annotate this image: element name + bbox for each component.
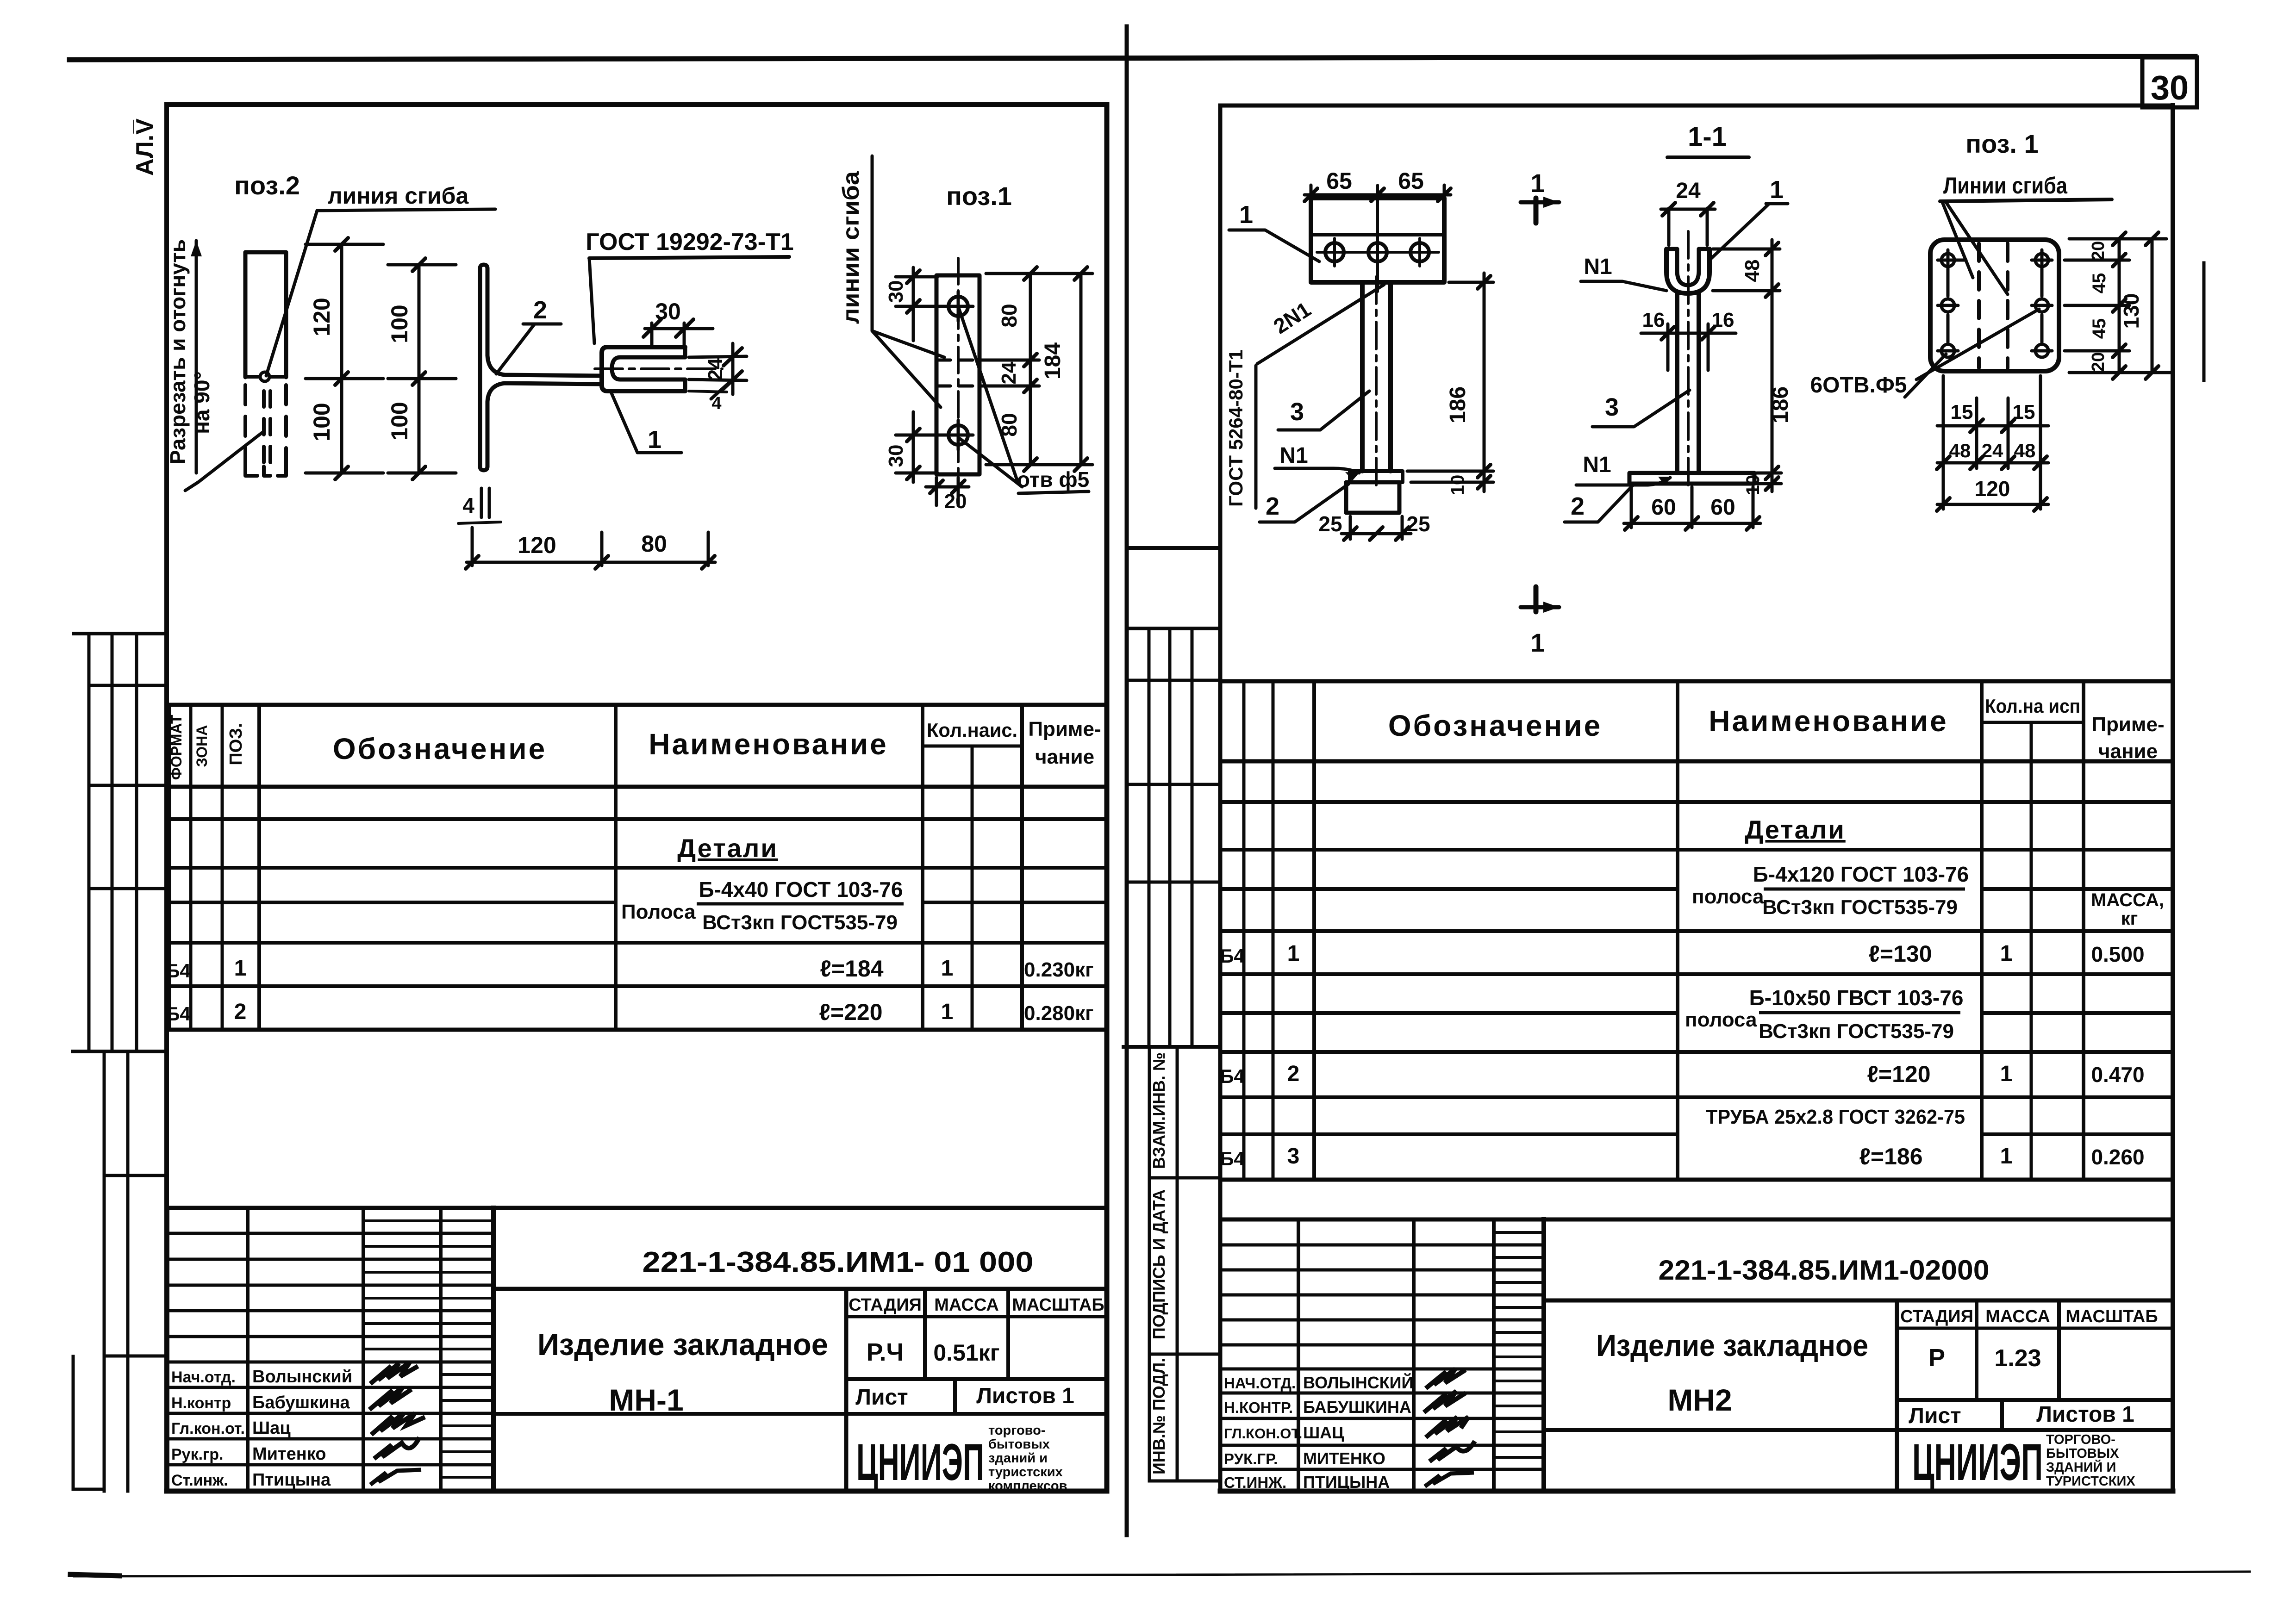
section mark lower (1534, 587, 1539, 612)
svg-text:РУК.ГР.: РУК.ГР. (1224, 1450, 1278, 1468)
svg-text:48: 48 (1741, 260, 1764, 282)
svg-text:80: 80 (641, 531, 667, 557)
svg-text:Изделие закладное: Изделие закладное (1596, 1328, 1868, 1362)
fold label leader (872, 156, 944, 357)
svg-text:поз.1: поз.1 (946, 181, 1012, 211)
T-part fork (detail 1) (602, 347, 685, 391)
svg-text:10: 10 (1447, 475, 1468, 496)
svg-text:Рук.гр.: Рук.гр. (171, 1446, 223, 1463)
RIGHT spec texts (1220, 695, 2164, 1169)
svg-text:МАССА,: МАССА, (2091, 890, 2164, 910)
svg-text:1: 1 (1239, 201, 1253, 229)
pipe section walls (1675, 293, 1679, 473)
svg-text:Б4: Б4 (1220, 1065, 1245, 1087)
svg-text:полоса: полоса (1685, 1008, 1757, 1031)
svg-text:ТОРГОВО-: ТОРГОВО- (2046, 1432, 2115, 1447)
svg-text:ℓ=120: ℓ=120 (1867, 1061, 1930, 1087)
svg-text:кг: кг (2121, 908, 2138, 929)
svg-text:Детали: Детали (677, 833, 778, 863)
svg-text:Полоса: Полоса (621, 901, 696, 923)
dim 130 (2151, 239, 2154, 373)
svg-text:чание: чание (1035, 746, 1094, 768)
svg-text:16: 16 (1712, 309, 1734, 331)
note arrow line (195, 241, 198, 473)
svg-text:15: 15 (1951, 401, 1973, 423)
svg-text:30: 30 (885, 280, 907, 303)
svg-text:1: 1 (234, 956, 247, 981)
svg-text:1-1: 1-1 (1688, 122, 1727, 152)
svg-text:бытовых: бытовых (988, 1437, 1050, 1452)
svg-text:N1: N1 (1584, 255, 1612, 279)
svg-text:Приме-: Приме- (1028, 718, 1101, 740)
svg-text:120: 120 (518, 532, 556, 558)
dim 60/60 (1630, 487, 1633, 528)
center page divider (1125, 26, 1129, 1535)
svg-text:Митенко: Митенко (252, 1444, 326, 1464)
dim 100/100 for T-part (418, 265, 421, 473)
right dims 80/24/80 chain (986, 272, 1092, 275)
svg-text:N1: N1 (1583, 453, 1611, 477)
svg-text:Р: Р (1928, 1344, 1945, 1372)
svg-text:Б4: Б4 (1220, 1148, 1245, 1169)
pos.1 plate left page (838, 156, 1092, 513)
svg-text:1: 1 (2000, 941, 2013, 966)
svg-text:25: 25 (1318, 512, 1342, 536)
svg-text:НАЧ.ОТД.: НАЧ.ОТД. (1224, 1374, 1296, 1392)
top plate (1311, 198, 1444, 282)
svg-text:30: 30 (655, 298, 681, 324)
svg-text:ВСт3кп ГОСТ535-79: ВСт3кп ГОСТ535-79 (1762, 896, 1958, 919)
rotated sidebar texts (1149, 1052, 1168, 1474)
hole bottom (948, 425, 968, 445)
svg-text:Разрезать и отогнуть: Разрезать и отогнуть (166, 239, 190, 464)
LEFT title texts (171, 1246, 1104, 1493)
bottom dim chain 120 / 80 (471, 528, 474, 566)
dim 30 above fork (650, 323, 654, 345)
fold dashed lines (936, 359, 980, 362)
svg-text:ℓ=184: ℓ=184 (820, 956, 883, 982)
svg-text:2: 2 (1266, 492, 1279, 520)
svg-text:3: 3 (1287, 1144, 1300, 1169)
svg-text:ЦНИИЭП: ЦНИИЭП (856, 1433, 984, 1491)
svg-text:3: 3 (1605, 393, 1619, 421)
svg-text:Б-10х50 ГВСТ 103-76: Б-10х50 ГВСТ 103-76 (1749, 986, 1964, 1010)
svg-text:МАССА: МАССА (1985, 1307, 2050, 1326)
svg-text:ТУРИСТСКИХ: ТУРИСТСКИХ (2046, 1474, 2135, 1489)
svg-text:Линии сгиба: Линии сгиба (1943, 173, 2068, 199)
svg-text:1: 1 (941, 956, 954, 981)
LEFT title block (168, 1208, 1107, 1491)
svg-text:Лист: Лист (855, 1385, 908, 1410)
svg-text:130: 130 (2119, 293, 2143, 329)
svg-text:2: 2 (533, 296, 547, 324)
svg-text:Обозначение: Обозначение (333, 732, 547, 765)
svg-text:186: 186 (1446, 386, 1470, 423)
leaders to fold lines (1942, 202, 1973, 278)
svg-text:221-1-384.85.ИМ1- 01 000: 221-1-384.85.ИМ1- 01 000 (643, 1246, 1034, 1278)
LEFT lower attachment sidebar (103, 1051, 106, 1491)
svg-text:Бабушкина: Бабушкина (252, 1393, 350, 1412)
stamp name rows (168, 1361, 493, 1364)
RIGHT lower attachment sidebar (1148, 1047, 1151, 1481)
svg-text:65: 65 (1326, 168, 1352, 194)
fraction bar left (697, 902, 904, 906)
svg-text:Приме-: Приме- (2091, 713, 2164, 736)
svg-text:на 90°: на 90° (190, 371, 214, 434)
svg-text:МАСШТАБ: МАСШТАБ (1012, 1295, 1104, 1315)
dims 16/16 (1666, 324, 1670, 370)
LEFT spec table grid (169, 703, 1107, 707)
svg-text:Детали: Детали (1745, 815, 1846, 844)
dim 24 right of fork (689, 356, 747, 357)
pos.1 plate body (936, 275, 980, 474)
svg-text:Кол.наис.: Кол.наис. (927, 719, 1017, 741)
svg-text:Обозначение: Обозначение (1388, 709, 1602, 742)
svg-text:0.260: 0.260 (2091, 1145, 2144, 1169)
svg-text:100: 100 (387, 402, 412, 440)
svg-text:1: 1 (2000, 1144, 2013, 1169)
svg-text:3: 3 (1290, 398, 1304, 426)
svg-text:48: 48 (1949, 440, 1971, 461)
plate holes (1325, 243, 1344, 261)
svg-text:1: 1 (1770, 176, 1784, 204)
svg-text:Птицына: Птицына (252, 1470, 331, 1490)
svg-text:МИТЕНКО: МИТЕНКО (1303, 1449, 1385, 1468)
svg-text:100: 100 (309, 403, 335, 441)
svg-text:ПТИЦЫНА: ПТИЦЫНА (1303, 1473, 1390, 1492)
LEFT PAGE frame (167, 105, 1107, 1491)
svg-text:0.280кг: 0.280кг (1024, 1002, 1093, 1025)
svg-text:2: 2 (1287, 1062, 1300, 1086)
svg-text:16: 16 (1642, 309, 1665, 331)
svg-text:МН2: МН2 (1667, 1383, 1732, 1417)
svg-text:45: 45 (2089, 318, 2109, 339)
svg-text:ВСт3кп ГОСТ535-79: ВСт3кп ГОСТ535-79 (702, 911, 898, 934)
svg-text:Р.Ч: Р.Ч (867, 1338, 904, 1366)
svg-text:Гл.кон.от.: Гл.кон.от. (171, 1420, 245, 1437)
svg-text:ТРУБА 25х2.8 ГОСТ 3262-75: ТРУБА 25х2.8 ГОСТ 3262-75 (1706, 1106, 1965, 1128)
dim 186 / 10 right of front view (1449, 281, 1493, 284)
signatures right (1424, 1369, 1475, 1486)
svg-text:Ст.инж.: Ст.инж. (171, 1472, 228, 1489)
dim 4 bar thickness bottom (480, 488, 483, 517)
dim 120/100 for pos.2 (340, 244, 343, 473)
stamp fine rows in signature/date columns (363, 1219, 493, 1222)
U fork section (1666, 249, 1710, 293)
svg-text:Листов 1: Листов 1 (2036, 1402, 2134, 1427)
svg-text:линии сгиба: линии сгиба (838, 171, 864, 324)
pos.1 development plate (right page) (1810, 129, 2171, 511)
big box internal lines (493, 1287, 1107, 1291)
svg-text:221-1-384.85.ИМ1-02000: 221-1-384.85.ИМ1-02000 (1659, 1255, 1990, 1286)
svg-text:1: 1 (1530, 628, 1545, 657)
fold mark on plate (246, 375, 259, 379)
svg-text:ЗОНА: ЗОНА (193, 725, 210, 767)
svg-text:1: 1 (648, 426, 661, 454)
svg-text:15: 15 (2013, 401, 2035, 423)
sheet number box 30 (2142, 57, 2197, 107)
svg-text:184: 184 (1041, 342, 1065, 379)
svg-text:80: 80 (997, 304, 1021, 327)
plate centerline (957, 258, 960, 494)
svg-text:100: 100 (387, 305, 412, 343)
signatures left (369, 1362, 425, 1485)
svg-text:БАБУШКИНА: БАБУШКИНА (1303, 1398, 1411, 1417)
RIGHT PAGE frame (1218, 106, 1223, 1491)
svg-text:ГЛ.КОН.ОТ.: ГЛ.КОН.ОТ. (1224, 1425, 1302, 1442)
svg-text:120: 120 (309, 298, 335, 336)
svg-text:комплексов: комплексов (988, 1479, 1067, 1493)
svg-text:Шац: Шац (252, 1418, 291, 1438)
svg-text:СТАДИЯ: СТАДИЯ (1900, 1307, 1973, 1326)
svg-text:Б-4х120 ГОСТ 103-76: Б-4х120 ГОСТ 103-76 (1753, 862, 1969, 886)
stamp upper rows (168, 1232, 493, 1235)
svg-text:24: 24 (704, 358, 727, 380)
svg-text:Б4: Б4 (1220, 945, 1245, 967)
LEFT spec header texts (166, 715, 1101, 1025)
dim 20 bottom (935, 478, 938, 505)
svg-text:24: 24 (1982, 440, 2003, 461)
svg-text:Н.КОНТР.: Н.КОНТР. (1224, 1399, 1293, 1416)
right margin tick (2202, 263, 2206, 380)
svg-text:10: 10 (1743, 475, 1763, 496)
hole top (948, 297, 968, 316)
dim 65/65 (1310, 185, 1313, 194)
development plate (1930, 240, 2059, 371)
svg-text:ВСт3кп ГОСТ535-79: ВСт3кп ГОСТ535-79 (1759, 1020, 1954, 1043)
svg-text:0.230кг: 0.230кг (1024, 958, 1093, 981)
svg-text:120: 120 (1975, 477, 2010, 501)
svg-text:АЛ.V̅: АЛ.V̅ (131, 118, 158, 176)
6 holes (1938, 250, 2052, 357)
svg-text:СТ.ИНЖ.: СТ.ИНЖ. (1224, 1474, 1286, 1491)
svg-text:линия сгиба: линия сгиба (328, 183, 469, 209)
RIGHT spec table grid (1222, 681, 2173, 1180)
svg-text:торгово-: торгово- (988, 1423, 1045, 1438)
svg-text:1: 1 (1287, 941, 1300, 966)
svg-text:туристских: туристских (988, 1465, 1063, 1480)
svg-text:60: 60 (1710, 495, 1735, 520)
svg-text:2: 2 (1571, 492, 1585, 520)
svg-text:ℓ=186: ℓ=186 (1859, 1144, 1922, 1169)
svg-text:20: 20 (2089, 352, 2108, 372)
svg-text:60: 60 (1651, 495, 1676, 520)
bottom dims 15/15 (1942, 376, 1945, 509)
svg-text:Волынский: Волынский (252, 1367, 352, 1387)
base plate section (1629, 473, 1754, 484)
bottom left blob (70, 1574, 119, 1576)
svg-text:Наименование: Наименование (649, 728, 888, 761)
svg-text:МАСШТАБ: МАСШТАБ (2065, 1307, 2158, 1326)
pos.2 plate lower dashed part (243, 385, 247, 468)
big box internals (1544, 1299, 2173, 1303)
svg-text:чание: чание (2098, 740, 2158, 763)
svg-text:Б4: Б4 (166, 960, 191, 982)
svg-text:ЗДАНИЙ И: ЗДАНИЙ И (2046, 1459, 2116, 1475)
svg-text:20: 20 (2089, 241, 2108, 261)
bottom dims 48/24/48 (1937, 461, 2048, 465)
LEFT upper attachment sidebar (74, 632, 167, 635)
svg-text:1.23: 1.23 (1994, 1345, 2041, 1372)
svg-text:0.470: 0.470 (2091, 1063, 2144, 1087)
svg-text:Лист: Лист (1909, 1404, 1961, 1428)
svg-text:24: 24 (1676, 179, 1701, 203)
svg-text:поз. 1: поз. 1 (1965, 129, 2038, 158)
svg-text:СТАДИЯ: СТАДИЯ (849, 1295, 922, 1315)
svg-text:ВОЛЫНСКИЙ: ВОЛЫНСКИЙ (1303, 1373, 1413, 1392)
svg-text:Кол.на исп: Кол.на исп (1985, 695, 2080, 717)
svg-text:ℓ=220: ℓ=220 (819, 999, 882, 1025)
fork centerline (595, 367, 722, 370)
RIGHT title block (1220, 1219, 2173, 1491)
svg-text:1: 1 (2000, 1062, 2013, 1086)
svg-text:2: 2 (234, 1000, 247, 1024)
svg-text:0.500: 0.500 (2091, 942, 2144, 966)
svg-text:Изделие закладное: Изделие закладное (537, 1327, 828, 1362)
svg-text:ГОСТ 5264-80-Т1: ГОСТ 5264-80-Т1 (1225, 349, 1247, 507)
T-part vertical bar (480, 265, 602, 466)
svg-text:45: 45 (2089, 273, 2109, 294)
section 1-1 drawing (1521, 122, 1793, 657)
svg-text:65: 65 (1398, 168, 1424, 194)
fraction bars right page (1764, 888, 1965, 891)
svg-text:30: 30 (885, 445, 907, 467)
RIGHT upper attachment sidebar (1128, 546, 1220, 550)
RIGHT title texts (1224, 1255, 2158, 1492)
svg-text:ЦНИИЭП: ЦНИИЭП (1912, 1433, 2043, 1491)
svg-text:ГОСТ 19292-73-Т1: ГОСТ 19292-73-Т1 (586, 229, 793, 255)
svg-text:4: 4 (462, 493, 474, 517)
svg-text:20: 20 (944, 490, 967, 513)
pipe (1360, 282, 1365, 471)
bottom scan line (74, 1572, 2250, 1576)
fold dashed lines (1977, 243, 1981, 368)
svg-text:N1: N1 (1279, 443, 1308, 468)
svg-text:ℓ=130: ℓ=130 (1868, 941, 1932, 967)
right dim chain 20/45/45/20 (2065, 259, 2129, 262)
svg-text:зданий и: зданий и (988, 1451, 1048, 1466)
dim 30 bottom-left (896, 434, 943, 437)
leader to fold line (266, 211, 317, 376)
svg-text:поз.2: поз.2 (234, 171, 300, 200)
svg-text:1: 1 (941, 1000, 954, 1024)
svg-text:4: 4 (711, 394, 721, 413)
dim 24 top (1667, 208, 1671, 245)
svg-text:ВЗАМ.ИНВ. №: ВЗАМ.ИНВ. № (1149, 1052, 1168, 1169)
svg-text:Б4: Б4 (166, 1003, 191, 1025)
svg-text:МАССА: МАССА (934, 1295, 999, 1315)
svg-text:25: 25 (1406, 512, 1430, 536)
dim 25/25 (1349, 516, 1352, 539)
svg-text:30: 30 (2151, 68, 2189, 107)
svg-text:ШАЦ: ШАЦ (1303, 1423, 1344, 1442)
svg-text:БЫТОВЫХ: БЫТОВЫХ (2046, 1446, 2119, 1461)
svg-text:ИНВ.№ ПОДЛ.: ИНВ.№ ПОДЛ. (1149, 1358, 1168, 1474)
svg-text:1: 1 (1530, 168, 1545, 198)
svg-text:Наименование: Наименование (1709, 704, 1948, 738)
svg-text:ПОЗ.: ПОЗ. (226, 723, 246, 765)
svg-text:Листов 1: Листов 1 (976, 1384, 1074, 1408)
dim 30 top-left (896, 275, 937, 279)
svg-text:Б-4х40 ГОСТ 103-76: Б-4х40 ГОСТ 103-76 (699, 877, 903, 902)
right dims 48 / 186 / 10 (1713, 248, 1780, 251)
top rule (69, 56, 2195, 60)
pos.2 plate upper solid part (245, 252, 286, 377)
svg-text:Нач.отд.: Нач.отд. (171, 1368, 236, 1386)
svg-text:0.51кг: 0.51кг (933, 1340, 999, 1366)
bottom dim 120 (1937, 503, 2048, 506)
svg-text:Н.контр: Н.контр (171, 1394, 231, 1412)
note leader to dashed part (198, 433, 262, 482)
svg-text:24: 24 (998, 361, 1020, 384)
svg-text:полоса: полоса (1692, 885, 1764, 908)
svg-text:ПОДПИСЬ И ДАТА: ПОДПИСЬ И ДАТА (1149, 1189, 1168, 1339)
svg-text:186: 186 (1768, 386, 1793, 423)
svg-text:МН-1: МН-1 (609, 1383, 683, 1417)
svg-text:отв ф5: отв ф5 (1017, 467, 1089, 491)
svg-text:ФОРМАТ: ФОРМАТ (168, 715, 185, 780)
dim 4 prong thickness (689, 391, 727, 392)
svg-text:6ОТВ.Ф5: 6ОТВ.Ф5 (1810, 373, 1907, 398)
base plate edge view (1350, 471, 1403, 482)
svg-text:48: 48 (2014, 440, 2036, 461)
